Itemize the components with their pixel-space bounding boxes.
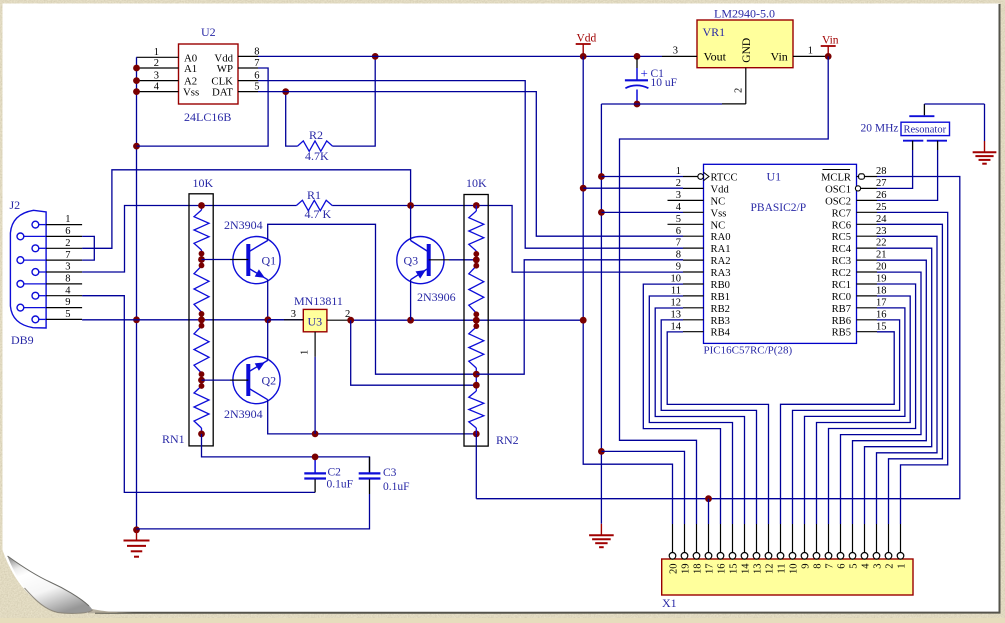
X1 pin 13 stub	[756, 524, 758, 553]
J2 pin 9 stub	[24, 307, 82, 309]
J2 pin 7 circle	[17, 257, 24, 264]
svg-text:OSC2: OSC2	[825, 196, 851, 207]
svg-text:RA3: RA3	[711, 268, 731, 279]
svg-text:RB3: RB3	[711, 316, 730, 327]
svg-text:MN13811: MN13811	[294, 294, 343, 308]
wire RB6 to X1 pin 10	[793, 320, 900, 524]
resistor R1 zigzag	[296, 200, 332, 210]
svg-text:21: 21	[876, 250, 887, 261]
svg-text:10 uF: 10 uF	[651, 77, 678, 89]
svg-text:12: 12	[764, 564, 775, 575]
wire RC0 to X1 pin 8	[817, 296, 911, 524]
J2 pin 3 stub	[39, 271, 82, 273]
J2 pin 3 circle	[32, 269, 39, 276]
svg-text:Vss: Vss	[711, 208, 727, 219]
J2 pin 9 circle	[17, 304, 24, 311]
svg-text:8: 8	[65, 274, 70, 285]
junction emitters node	[265, 316, 272, 323]
junction C1 bottom	[634, 101, 641, 108]
junction gnd RTCC	[598, 173, 605, 180]
wire R1 to serial row right	[332, 206, 683, 273]
IC U1 body	[704, 164, 857, 343]
U1 pin 7 stub RA1	[683, 247, 704, 249]
U1 pin 11 stub RB1	[683, 295, 704, 297]
junction A1	[133, 65, 140, 72]
X1 pin 9 stub	[804, 524, 806, 553]
svg-text:PIC16C57RC/P(28): PIC16C57RC/P(28)	[704, 345, 793, 357]
wire RC3 to X1 pin 5	[853, 260, 927, 524]
svg-text:26: 26	[876, 190, 887, 201]
junction WP row	[133, 143, 140, 150]
U2 pin 1 stub A0	[137, 56, 179, 58]
X1 pin 16 stub	[720, 524, 722, 553]
X1 pin 15 circle	[729, 553, 736, 560]
svg-text:0.1uF: 0.1uF	[327, 479, 354, 491]
svg-text:10K: 10K	[466, 176, 487, 190]
junction Q3 emitter row	[407, 317, 414, 324]
RN2 element 1	[475, 206, 477, 212]
resonator plate dashes	[903, 104, 947, 141]
svg-text:2: 2	[734, 88, 745, 93]
junction RN2 tap2	[473, 311, 480, 329]
svg-text:RC6: RC6	[832, 220, 851, 231]
svg-text:2N3904: 2N3904	[224, 407, 263, 421]
wire Vdd to U1 pin2	[583, 187, 683, 189]
U1 pin 6 stub RA0	[683, 235, 704, 237]
resonator leg OSC1	[912, 141, 914, 150]
X1 pin 11 circle	[777, 553, 784, 560]
X1 pin 8 stub	[816, 524, 818, 553]
X1 pin 8 circle	[813, 553, 820, 560]
junction RN2 tap3	[473, 371, 480, 378]
svg-text:Vdd: Vdd	[577, 33, 597, 45]
connector X1 body	[662, 559, 913, 595]
junction Vin pin	[825, 53, 832, 60]
junction RN1 tap1	[198, 251, 205, 269]
junction C3 gnd row	[133, 526, 140, 533]
U1 pin 10 stub RB0	[683, 283, 704, 285]
ground middle	[589, 524, 614, 547]
wire Vdd top row U2 to VR1	[258, 55, 662, 57]
svg-text:1: 1	[676, 166, 681, 177]
wire X1 pin17 riser	[708, 499, 710, 524]
RTCC clock triangle	[704, 172, 710, 180]
X1 pin 5 stub	[852, 524, 854, 553]
VR1 pin 1 stub	[793, 55, 828, 57]
svg-text:25: 25	[876, 202, 887, 213]
svg-text:RB2: RB2	[711, 304, 730, 315]
resonator Y1 box	[901, 122, 950, 135]
wire J2 pin5 ground row	[82, 319, 303, 321]
wire RN1 tap3 to Q2 base	[202, 379, 231, 381]
X1 pin 14 circle	[741, 553, 748, 560]
svg-text:15: 15	[876, 321, 887, 332]
X1 pin 15 stub	[732, 524, 734, 553]
U1 pin 22 stub RC4	[857, 247, 878, 249]
svg-text:X1: X1	[662, 596, 677, 610]
svg-text:LM2940-5.0: LM2940-5.0	[714, 7, 775, 21]
junction Vdd U3 row	[580, 317, 587, 324]
svg-text:10: 10	[788, 564, 799, 575]
svg-text:16: 16	[876, 309, 887, 320]
wire U2 pin1 link	[136, 56, 139, 58]
svg-text:WP: WP	[217, 63, 233, 75]
svg-text:15: 15	[728, 564, 739, 575]
svg-text:U3: U3	[308, 315, 323, 329]
svg-text:RC3: RC3	[832, 256, 851, 267]
svg-text:24: 24	[876, 214, 887, 225]
X1 pin 16 circle	[717, 553, 724, 560]
ground top right	[973, 104, 997, 164]
U3 pin 3 stub	[284, 319, 303, 321]
svg-text:4.7 K: 4.7 K	[305, 207, 332, 221]
svg-text:RC2: RC2	[832, 268, 851, 279]
wire resonator to OSC1	[877, 150, 913, 188]
U2 pin 6 stub CLK	[238, 80, 258, 82]
power symbol Vin	[821, 46, 836, 56]
wire J2 pin4 to C2	[82, 296, 315, 493]
wire RC1 to X1 pin 7	[829, 284, 916, 524]
U1 pin 1 stub RTCC	[683, 176, 704, 178]
svg-text:2N3906: 2N3906	[417, 290, 456, 304]
svg-text:6: 6	[836, 564, 847, 569]
svg-text:24LC16B: 24LC16B	[184, 110, 231, 124]
J2 pin 6 stub	[24, 235, 82, 237]
U1 pin 23 stub RC5	[857, 235, 878, 237]
svg-text:C3: C3	[383, 467, 397, 479]
U2 pin 4 stub Vss	[137, 91, 179, 93]
junction gnd X1 row	[598, 448, 605, 455]
wire R2 to Vdd rail	[333, 56, 376, 146]
svg-text:RC1: RC1	[832, 280, 851, 291]
Q2 base stub	[230, 379, 248, 381]
svg-text:J2: J2	[10, 198, 21, 212]
X1 pin 4 circle	[861, 553, 868, 560]
U1 pin 17 stub RB7	[857, 307, 878, 309]
U2 pin 8 stub Vdd	[238, 55, 258, 57]
U3 pin 1 stub	[314, 332, 316, 357]
svg-text:17: 17	[704, 564, 715, 575]
svg-text:3: 3	[291, 309, 296, 320]
U1 pin 4 stub Vss	[683, 211, 704, 213]
wire RC6 to X1 pin 2	[877, 224, 942, 524]
transistor Q2 2N3904	[233, 357, 280, 404]
J2 pin 4 circle	[32, 292, 39, 299]
U2 pin 7 stub WP	[238, 67, 258, 69]
svg-text:U2: U2	[201, 25, 216, 39]
wire Vdd rail	[583, 56, 672, 524]
capacitor C2	[304, 457, 326, 493]
svg-text:10K: 10K	[193, 176, 214, 190]
X1 pin 11 stub	[780, 524, 782, 553]
J2 pin 5 circle	[32, 316, 39, 323]
wire Vin rail	[620, 56, 829, 524]
J2 pin 5 stub	[39, 318, 82, 320]
svg-text:R2: R2	[309, 128, 323, 142]
svg-text:MCLR: MCLR	[821, 173, 852, 184]
junction DB9 pin5 gnd	[133, 316, 140, 323]
wire RN2 bottom to MCLR rail	[475, 434, 477, 499]
svg-text:17: 17	[876, 297, 887, 308]
wire RC2 to X1 pin 6	[841, 272, 922, 524]
U1 pin 15 stub RB5	[857, 331, 878, 333]
RN2 element 2	[475, 260, 477, 266]
junction R2 Vdd	[372, 53, 379, 60]
svg-text:1: 1	[65, 214, 70, 225]
J2 pin 4 stub	[39, 295, 82, 297]
wire gnd to X1 pin19	[601, 451, 684, 524]
svg-text:Q2: Q2	[262, 374, 277, 388]
svg-text:R1: R1	[307, 188, 321, 202]
svg-text:28: 28	[876, 166, 887, 177]
wire U3 pin2 to RN2 tap	[351, 320, 477, 385]
U2 pin 3 stub A2	[137, 80, 179, 82]
U1 pin 24 stub RC6	[857, 223, 878, 225]
X1 pin 17 stub	[708, 524, 710, 553]
wire RB5 to X1 pin 11	[781, 332, 895, 524]
U1 pin 8 stub RA2	[683, 259, 704, 261]
OSC1 bubble	[855, 186, 860, 191]
svg-text:11: 11	[776, 564, 787, 574]
svg-text:Resonator: Resonator	[904, 124, 947, 135]
X1 pin 9 circle	[801, 553, 808, 560]
ground left	[124, 530, 150, 557]
RN2 element 4	[475, 374, 477, 391]
junction RN2 tap4	[473, 382, 480, 389]
wire RC5 to X1 pin 3	[877, 236, 938, 524]
transistor Q1 2N3904	[233, 237, 280, 284]
junction serial Q3	[407, 202, 414, 209]
svg-text:13: 13	[671, 309, 682, 320]
svg-text:Vout: Vout	[704, 50, 727, 64]
wire Q3 base to RN2	[449, 259, 476, 261]
wire DAT U2 to RA0	[258, 92, 683, 237]
U1 pin 14 stub RB4	[683, 331, 704, 333]
svg-text:NC: NC	[711, 220, 726, 231]
svg-text:9: 9	[65, 297, 70, 308]
svg-text:4: 4	[65, 285, 71, 296]
X1 pin 2 circle	[885, 553, 892, 560]
U1 pin 13 stub RB3	[683, 319, 704, 321]
wire U3 pin1 down	[314, 357, 316, 434]
svg-text:0.1uF: 0.1uF	[383, 481, 410, 493]
X1 pin 2 stub	[888, 524, 890, 553]
svg-text:RC0: RC0	[832, 292, 851, 303]
junction RN1 tap2	[198, 311, 205, 329]
J2 pin 6 circle	[17, 233, 24, 240]
X1 pin 1 stub	[900, 524, 902, 553]
junction A2	[133, 77, 140, 84]
svg-text:NC: NC	[711, 196, 726, 207]
svg-text:1: 1	[154, 47, 159, 58]
svg-text:5: 5	[65, 309, 70, 320]
svg-text:RB1: RB1	[711, 292, 730, 303]
wire gnd to U1 pin1	[601, 176, 683, 178]
svg-text:2: 2	[884, 564, 895, 569]
U1 pin 2 stub Vdd	[683, 187, 704, 189]
RN1 element 3	[194, 326, 209, 373]
svg-text:Q3: Q3	[404, 254, 419, 268]
page curl cone	[8, 556, 93, 613]
wire U3 pin2 row	[351, 319, 584, 321]
X1 pin 19 stub	[684, 524, 686, 553]
svg-text:19: 19	[876, 274, 887, 285]
junction Vss U2	[133, 88, 140, 95]
svg-text:8: 8	[676, 250, 681, 261]
RN2 element 3	[475, 320, 477, 327]
junction RN2 tap1	[473, 251, 480, 269]
svg-text:20: 20	[876, 262, 887, 273]
U1 pin 5 stub NC	[668, 223, 704, 225]
RN1 element 2	[194, 266, 209, 312]
wire MCLR net	[476, 177, 960, 499]
svg-text:18: 18	[692, 564, 703, 575]
svg-text:3: 3	[65, 262, 70, 273]
wire Q3 emitter down	[410, 280, 412, 321]
IC U3 MN13811 body	[303, 309, 327, 331]
RN1 element 4	[194, 386, 209, 428]
svg-text:2: 2	[676, 178, 681, 189]
junction RN1 top	[198, 202, 205, 209]
svg-text:RB5: RB5	[832, 328, 851, 339]
svg-text:2: 2	[65, 238, 70, 249]
junction Vdd U1 row	[580, 185, 587, 192]
wire RB2 to X1 pin 14	[655, 308, 744, 524]
svg-text:1: 1	[300, 350, 311, 355]
svg-text:1: 1	[896, 564, 907, 569]
X1 pin 1 circle	[897, 553, 904, 560]
wire RC4 to X1 pin 4	[865, 248, 932, 524]
svg-text:27: 27	[876, 178, 887, 189]
U1 pin 16 stub RB6	[857, 319, 878, 321]
X1 pin 14 stub	[744, 524, 746, 553]
svg-text:RA0: RA0	[711, 232, 731, 243]
svg-text:2N3904: 2N3904	[224, 218, 263, 232]
svg-text:Vin: Vin	[771, 50, 788, 64]
U1 pin 27 stub OSC1	[857, 187, 878, 189]
wire RB3 to X1 pin 13	[661, 320, 756, 524]
X1 pin 18 stub	[696, 524, 698, 553]
wire Q2 emitter	[267, 320, 269, 361]
wire RA2 to RN2 row	[476, 260, 683, 374]
J2 pin 1 stub	[39, 224, 82, 226]
U1 pin 19 stub RC1	[857, 283, 878, 285]
svg-text:14: 14	[671, 321, 682, 332]
svg-text:OSC1: OSC1	[825, 184, 851, 195]
svg-text:12: 12	[671, 297, 682, 308]
svg-text:6: 6	[676, 226, 681, 237]
wire Q1 emitter	[267, 280, 269, 320]
svg-text:19: 19	[680, 564, 691, 575]
svg-text:9: 9	[800, 564, 811, 569]
U1 pin 28 stub MCLR	[857, 176, 878, 178]
J2 pin 2 circle	[32, 245, 39, 252]
MCLR bubble	[859, 174, 865, 179]
U1 pin 18 stub RC0	[857, 295, 878, 297]
svg-text:23: 23	[876, 226, 887, 237]
svg-text:Vin: Vin	[822, 35, 839, 47]
RTCC bubble	[698, 174, 704, 180]
VR1 pin 3 stub	[662, 55, 697, 57]
svg-text:4: 4	[154, 82, 160, 93]
X1 pin 3 circle	[873, 553, 880, 560]
junction DAT R2	[282, 88, 289, 95]
junction U3 pin1 node	[312, 431, 319, 438]
RN1 element 1	[201, 205, 203, 210]
junction RN2 top	[473, 202, 480, 209]
svg-text:20: 20	[668, 564, 679, 575]
junction gnd Vss	[598, 209, 605, 216]
power symbol Vdd	[576, 44, 591, 56]
wire gnd to U1 pin4	[601, 211, 683, 213]
svg-text:RTCC: RTCC	[711, 173, 738, 184]
wire DAT to R2	[286, 92, 298, 147]
svg-text:18: 18	[876, 286, 887, 297]
wire Q2 collector	[268, 400, 477, 434]
wire RN1 tap1 to Q1 base	[202, 259, 231, 261]
page curl cast shadow	[88, 608, 138, 613]
U3 pin 2 stub	[327, 319, 351, 321]
svg-text:VR1: VR1	[703, 25, 726, 39]
svg-text:4.7K: 4.7K	[305, 149, 329, 163]
wire RN1 bottom to C row	[202, 434, 370, 473]
svg-text:DAT: DAT	[212, 87, 233, 99]
J2 pin 8 circle	[17, 281, 24, 288]
U1 pin 9 stub RA3	[683, 271, 704, 273]
wire gnd rail U2 pins to ground	[136, 57, 138, 530]
junction C1 top	[634, 53, 641, 60]
U2 pin 2 stub A1	[137, 67, 179, 69]
wire RB4 to X1 pin 12	[667, 332, 768, 524]
wire Q3 collector up	[410, 206, 412, 241]
capacitor C1	[625, 58, 649, 104]
resistor network RN2 box	[464, 195, 488, 447]
X1 pin 6 circle	[837, 553, 844, 560]
svg-text:PBASIC2/P: PBASIC2/P	[751, 202, 807, 214]
regulator VR1 body	[697, 20, 793, 68]
svg-text:22: 22	[876, 238, 887, 249]
svg-text:16: 16	[716, 564, 727, 575]
svg-text:Vss: Vss	[183, 87, 199, 99]
X1 pin 20 stub	[672, 524, 674, 553]
resistor network RN1 box	[189, 194, 213, 446]
wire resonator case to gnd	[924, 103, 984, 105]
U1 pin 3 stub NC	[668, 199, 704, 201]
svg-text:14: 14	[740, 563, 751, 574]
U1 pin 12 stub RB2	[683, 307, 704, 309]
junction U3 pin2	[347, 317, 354, 324]
svg-text:3: 3	[676, 190, 681, 201]
svg-text:U1: U1	[767, 170, 782, 184]
wire RB0 to X1 pin 16	[643, 284, 720, 524]
X1 pin 10 circle	[789, 553, 796, 560]
page curl under-shadow	[25, 588, 93, 613]
wire CLK U2 to RA1	[258, 81, 683, 249]
svg-text:A1: A1	[184, 63, 197, 75]
svg-text:RB6: RB6	[832, 316, 851, 327]
junction Vdd rail top	[580, 53, 587, 60]
resistor R2 zigzag	[298, 141, 333, 151]
svg-text:9: 9	[676, 262, 681, 273]
X1 pin 10 stub	[792, 524, 794, 553]
svg-text:7: 7	[65, 250, 70, 261]
svg-text:5: 5	[676, 214, 681, 225]
svg-text:RA2: RA2	[711, 256, 731, 267]
wire RB7 to X1 pin 9	[805, 308, 905, 524]
svg-text:4: 4	[860, 563, 871, 569]
wire C1 row to VR1 gnd	[601, 103, 722, 105]
svg-text:RN1: RN1	[162, 432, 185, 446]
